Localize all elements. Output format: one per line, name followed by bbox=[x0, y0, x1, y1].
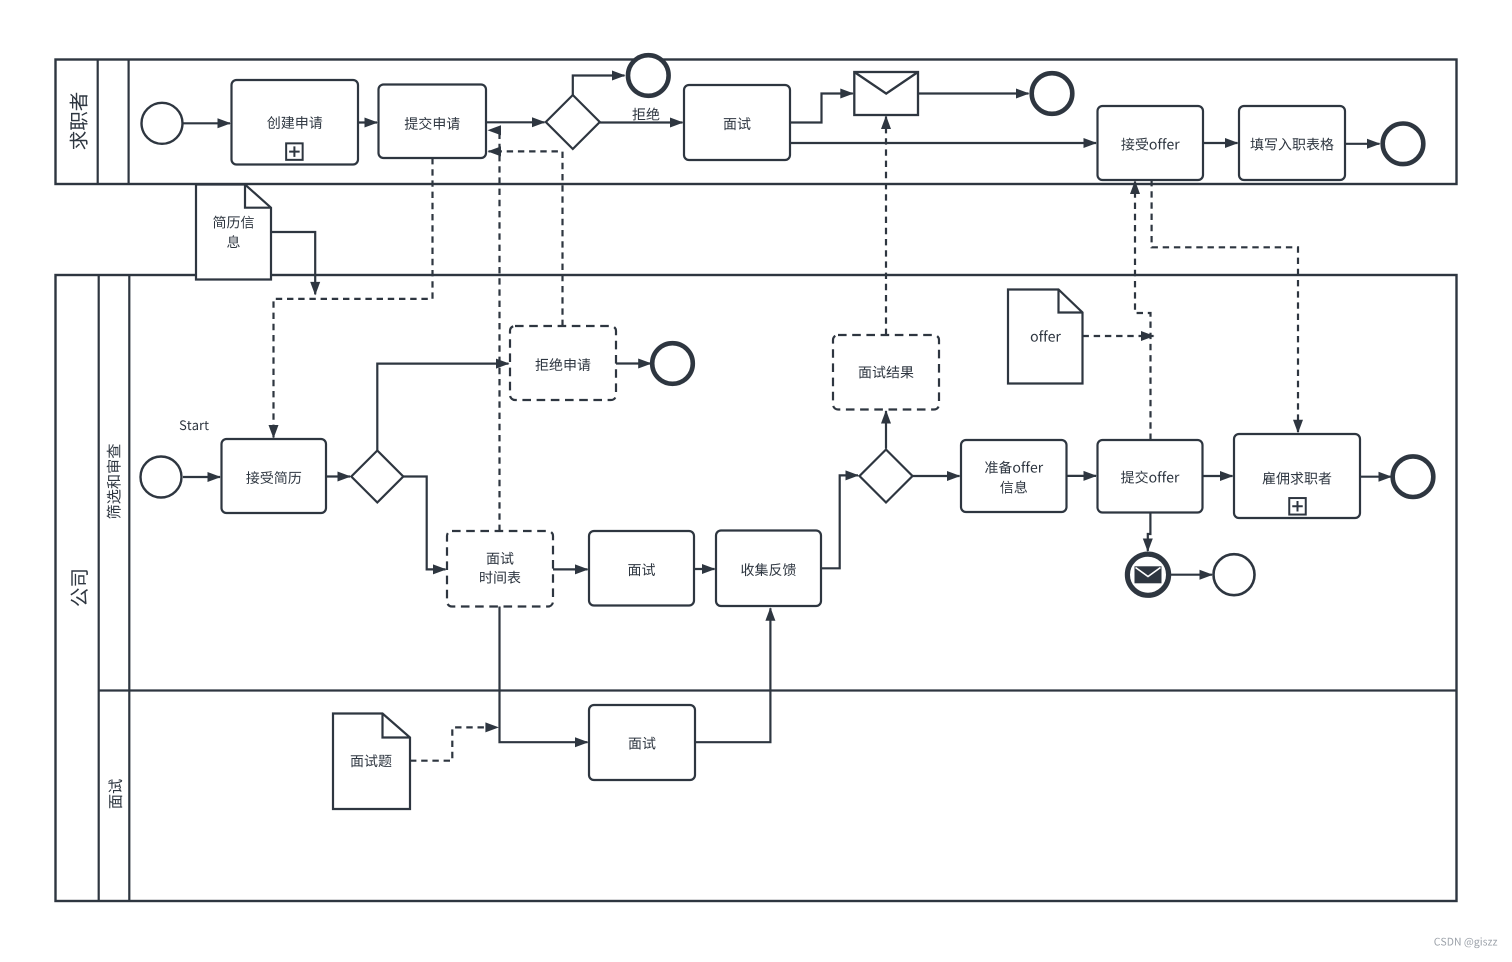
pool 求职者 (job applicant) bbox=[56, 60, 1457, 185]
sequence flow 创建申请→提交申请 bbox=[358, 121, 377, 123]
task 面试结果 (dashed) bbox=[833, 335, 939, 410]
subprocess task 雇佣求职者 bbox=[1234, 434, 1360, 518]
message flow 拒绝申请→提交申请 bbox=[489, 151, 563, 326]
sequence flow 填写入职表格→end event bbox=[1345, 143, 1380, 145]
start event (company) bbox=[141, 457, 182, 498]
sequence flow gateway→end event (accept) bbox=[573, 76, 625, 96]
message (envelope) shape bbox=[854, 72, 918, 115]
sequence flow gateway→拒绝申请 bbox=[377, 364, 508, 451]
sequence flow gateway→面试, label 拒绝 bbox=[600, 108, 683, 123]
task 收集反馈 bbox=[716, 531, 821, 607]
sequence flow message→end event bbox=[918, 92, 1029, 94]
message flow 接受offer→雇佣求职者 bbox=[1152, 180, 1298, 432]
association 简历信息→message flow bbox=[271, 232, 315, 294]
end event top (applicant) bbox=[628, 55, 669, 96]
sequence flow 面试→接受offer bbox=[790, 142, 1096, 144]
sequence flow 收集反馈→gateway bbox=[821, 475, 858, 568]
task 面试 (applicant) bbox=[684, 85, 790, 160]
sequence flow 雇佣求职者→end event bbox=[1360, 476, 1391, 478]
label Start bbox=[180, 420, 209, 430]
sequence flow 提交申请→gateway bbox=[486, 121, 545, 123]
sequence flow 拒绝申请→end event bbox=[616, 362, 651, 364]
sequence flow 提交offer→雇佣求职者 bbox=[1203, 475, 1233, 477]
sequence flow 接受offer→填写入职表格 bbox=[1203, 142, 1238, 144]
document 面试题 bbox=[333, 714, 410, 810]
sequence flow 面试时间表→面试 bbox=[553, 568, 588, 570]
message flow 面试时间表→提交申请 bbox=[489, 130, 500, 531]
message flow 提交offer→接受offer bbox=[1135, 182, 1151, 440]
intermediate event circle bbox=[1214, 554, 1255, 595]
sequence flow 面试时间表→面试 (interview lane) bbox=[500, 607, 588, 743]
sequence flow 接受简历→gateway bbox=[326, 475, 350, 477]
exclusive gateway (screening) bbox=[351, 451, 403, 503]
task 接受简历 bbox=[222, 439, 327, 513]
task 提交申请 bbox=[379, 85, 487, 159]
sequence flow 准备offer信息→提交offer bbox=[1067, 475, 1097, 477]
task 面试时间表 (dashed) bbox=[447, 531, 553, 607]
message flow 面试结果→message shape bbox=[885, 117, 887, 336]
document 简历信息 bbox=[196, 185, 271, 280]
exclusive gateway (feedback) bbox=[860, 450, 913, 503]
sequence flow gateway→面试时间表 bbox=[403, 477, 445, 570]
end event after 拒绝申请 bbox=[652, 343, 693, 384]
task 接受offer bbox=[1098, 106, 1204, 180]
task 提交offer bbox=[1098, 440, 1203, 513]
message flow 提交申请→接受简历 bbox=[274, 158, 433, 438]
task 填写入职表格 bbox=[1239, 106, 1345, 180]
sequence flow 提交offer→message throw event bbox=[1148, 513, 1151, 551]
sequence flow gateway→面试结果 bbox=[885, 411, 887, 449]
sequence flow gateway→准备offer信息 bbox=[913, 475, 960, 477]
pool 公司 (company) with lanes 筛选和审查 / 面试 bbox=[56, 275, 1457, 901]
end event right (applicant) bbox=[1383, 124, 1424, 165]
subprocess task 创建申请 bbox=[232, 80, 359, 165]
end event after message (applicant) bbox=[1032, 73, 1073, 114]
sequence flow start→创建申请 bbox=[184, 122, 231, 124]
task 面试 (interview lane) bbox=[589, 705, 695, 780]
task 拒绝申请 (dashed) bbox=[510, 326, 616, 400]
sequence flow message event→circle bbox=[1170, 574, 1212, 576]
sequence flow 面试→收集反馈 bbox=[694, 568, 715, 570]
task 准备offer信息 bbox=[961, 440, 1067, 512]
exclusive gateway (applicant) bbox=[546, 95, 600, 149]
sequence flow 面试→message shape bbox=[790, 94, 853, 123]
document offer bbox=[1008, 290, 1083, 384]
message throw event (filled envelope) bbox=[1127, 554, 1168, 595]
end event (company) bbox=[1393, 456, 1434, 497]
sequence flow start→接受简历 bbox=[183, 476, 220, 478]
association 面试题→sequence flow bbox=[410, 727, 498, 760]
association offer→message flow bbox=[1083, 335, 1154, 337]
task 面试 (screening lane) bbox=[589, 531, 694, 606]
sequence flow 面试→收集反馈 (up) bbox=[695, 608, 770, 742]
watermark CSDN @giszz bbox=[1434, 937, 1497, 948]
start event (applicant) bbox=[142, 103, 183, 144]
